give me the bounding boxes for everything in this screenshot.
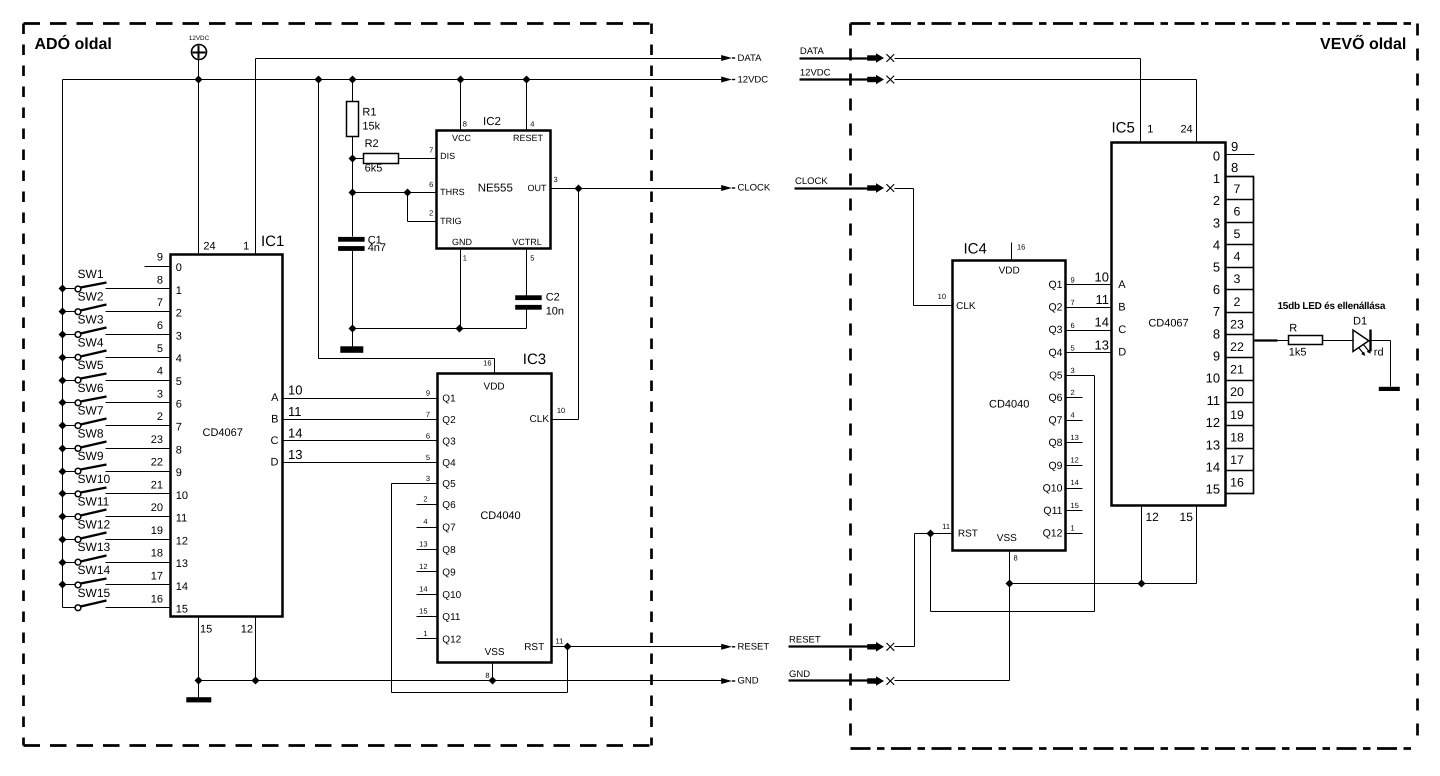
wire DATA to IC5 pin 1	[895, 59, 1141, 143]
RESET output arrow	[721, 642, 769, 653]
wire IC4 Q1 (pin 9) to IC5 A (pin 10)	[1048, 270, 1111, 292]
IC1 channel 14 wire (pin 17)	[106, 570, 189, 592]
svg-text:12: 12	[1146, 510, 1160, 524]
wire THRS node to IC2 THRS (pin 6)	[353, 192, 437, 194]
resistor R1 15k	[347, 102, 381, 137]
IC3 Q10 stub (pin 14)	[417, 584, 462, 601]
switch SW15	[63, 586, 111, 611]
svg-text:7: 7	[1071, 298, 1075, 307]
svg-text:4: 4	[1213, 238, 1220, 253]
svg-text:SW4: SW4	[78, 335, 104, 349]
svg-text:D: D	[271, 456, 279, 468]
svg-text:IC1: IC1	[261, 233, 284, 250]
junction IC5 pin12/VSS bus	[1138, 580, 1146, 588]
svg-text:8: 8	[485, 671, 489, 680]
svg-text:1: 1	[1071, 523, 1075, 532]
svg-text:SW10: SW10	[78, 472, 111, 486]
junction IC2 GND/ground bus	[456, 325, 464, 333]
ground symbol (IC1)	[186, 681, 211, 703]
junction CLOCK/IC3 CLK	[575, 185, 583, 193]
svg-text:VCTRL: VCTRL	[512, 237, 542, 247]
svg-text:13: 13	[288, 447, 302, 462]
svg-text:C: C	[1118, 324, 1126, 336]
IC3 RST (pin 11) stub	[552, 646, 568, 648]
IC1 channel 11 wire (pin 20)	[106, 502, 188, 524]
svg-text:THRS: THRS	[440, 187, 465, 197]
svg-text:SW15: SW15	[78, 586, 111, 600]
svg-text:Q8: Q8	[442, 545, 456, 556]
wire DATA line (IC1 pin1 to output)	[256, 58, 722, 60]
svg-text:RESET: RESET	[738, 642, 770, 653]
svg-text:16: 16	[483, 359, 491, 368]
wire THRS node to C1	[352, 193, 354, 237]
switch SW12	[59, 517, 111, 543]
svg-text:3: 3	[554, 175, 558, 184]
receiver DATA input port	[800, 46, 895, 63]
svg-text:R1: R1	[362, 107, 376, 119]
IC4 RST stub wire	[931, 533, 953, 535]
svg-text:14: 14	[419, 584, 427, 593]
junction IC3 VSS/GND line	[489, 677, 497, 685]
svg-text:1: 1	[243, 241, 249, 253]
svg-text:7: 7	[429, 145, 433, 154]
wire TRIG branch to IC2 TRIG (pin 2)	[408, 193, 437, 222]
receiver GND input port	[789, 669, 895, 686]
wire IC1 D (pin 13) to IC3 Q4 (pin 5)	[271, 447, 457, 469]
svg-text:22: 22	[1230, 340, 1244, 354]
wire GND line	[199, 680, 722, 682]
svg-text:GND: GND	[452, 237, 473, 247]
resistor R 1k5	[1289, 322, 1323, 358]
svg-text:Q1: Q1	[1048, 279, 1062, 291]
wire strip pin 22 to resistor R	[1255, 339, 1289, 341]
svg-text:Q8: Q8	[1048, 437, 1062, 449]
IC4 VSS (pin 8) wire down	[1010, 551, 1018, 681]
12VDC supply symbol	[189, 35, 210, 60]
wire RESET to IC4 RST (pin 11)	[895, 534, 931, 647]
svg-text:Q12: Q12	[442, 635, 461, 646]
svg-text:Q5: Q5	[1049, 370, 1063, 381]
IC1 channel 2 wire (pin 7)	[106, 297, 182, 319]
svg-text:10: 10	[557, 406, 565, 415]
wire switch common rail	[62, 80, 64, 608]
svg-text:11: 11	[288, 404, 302, 419]
svg-text:2: 2	[157, 411, 163, 423]
wire supply to 12VDC rail	[198, 60, 200, 80]
IC4 Q11 stub (pin 15)	[1043, 501, 1082, 517]
switch SW13	[59, 540, 111, 566]
svg-text:18: 18	[151, 548, 163, 560]
svg-text:13: 13	[1071, 433, 1079, 442]
svg-text:Q10: Q10	[1043, 482, 1063, 494]
IC4 Q9 stub (pin 12)	[1048, 456, 1082, 472]
svg-text:7: 7	[1213, 304, 1220, 319]
IC4 CD4040 counter body	[938, 241, 1066, 551]
IC4 Q12 stub (pin 1)	[1043, 523, 1083, 539]
svg-text:5: 5	[426, 453, 430, 462]
IC4 Q8 stub (pin 13)	[1048, 433, 1082, 449]
svg-text:6: 6	[1213, 282, 1220, 297]
svg-text:3: 3	[157, 388, 163, 400]
svg-text:3: 3	[176, 330, 182, 342]
svg-text:14: 14	[1095, 315, 1109, 330]
svg-text:12: 12	[241, 624, 253, 636]
junction THRS node	[349, 189, 357, 197]
svg-text:16: 16	[1230, 476, 1244, 490]
wire R1 to R2/THRS node	[352, 137, 354, 193]
svg-text:17: 17	[151, 570, 163, 582]
svg-text:B: B	[271, 414, 278, 426]
IC4 VDD (pin 16) stub	[1012, 243, 1026, 261]
IC1 pin 12 stub	[241, 617, 256, 681]
svg-text:Q5: Q5	[442, 479, 456, 490]
svg-text:3: 3	[1071, 366, 1075, 375]
svg-text:7: 7	[176, 421, 182, 433]
svg-text:NE555: NE555	[478, 183, 513, 195]
svg-text:8: 8	[463, 120, 467, 129]
IC1 channel 8 wire (pin 23)	[106, 434, 182, 456]
svg-text:SW14: SW14	[78, 563, 111, 577]
svg-text:Q7: Q7	[442, 523, 456, 534]
svg-text:1: 1	[463, 253, 467, 262]
svg-text:6: 6	[426, 432, 430, 441]
IC1 channel 15 wire (pin 16)	[106, 593, 189, 615]
svg-text:5: 5	[530, 253, 534, 262]
svg-text:Q2: Q2	[442, 415, 456, 426]
IC5 channel 0 stub (pin 9)	[1226, 139, 1255, 175]
svg-text:4n7: 4n7	[368, 242, 386, 254]
svg-text:R2: R2	[365, 138, 379, 150]
svg-text:4: 4	[1071, 410, 1075, 419]
svg-text:10: 10	[1095, 270, 1109, 285]
IC3 Q6 stub (pin 2)	[417, 494, 457, 511]
svg-text:4: 4	[1234, 250, 1241, 264]
12VDC output arrow	[721, 74, 768, 85]
IC3 Q12 stub (pin 1)	[417, 629, 462, 646]
svg-text:8: 8	[176, 444, 182, 456]
svg-text:21: 21	[1230, 363, 1244, 377]
svg-text:VCC: VCC	[452, 133, 472, 143]
svg-text:SW11: SW11	[78, 495, 110, 509]
IC3 Q5 (pin 3) wire to RST loop	[392, 474, 568, 693]
svg-text:12VDC: 12VDC	[800, 67, 831, 78]
IC1 CD4067 multiplexer body	[171, 233, 285, 617]
wire 12VDC rail to R1	[352, 80, 354, 102]
junction 12VDC/supply	[195, 76, 203, 84]
svg-text:A: A	[1118, 279, 1126, 291]
svg-text:IC2: IC2	[483, 116, 501, 128]
svg-text:9: 9	[426, 389, 430, 398]
junction IC3 RST/RESET line	[564, 643, 572, 651]
svg-text:2: 2	[1071, 388, 1075, 397]
svg-text:4: 4	[530, 120, 534, 129]
switch SW7	[59, 404, 107, 430]
svg-text:2: 2	[176, 308, 182, 320]
svg-text:OUT: OUT	[528, 183, 548, 193]
IC1 channel 6 wire (pin 3)	[106, 388, 182, 410]
svg-text:22: 22	[151, 457, 163, 469]
svg-text:Q6: Q6	[442, 500, 456, 511]
receiver RESET input port	[789, 635, 895, 652]
svg-text:SW3: SW3	[78, 313, 104, 327]
svg-text:13: 13	[1095, 337, 1109, 352]
svg-text:3: 3	[426, 474, 430, 483]
IC3 CD4040 counter body	[438, 351, 566, 663]
ground symbol (LED)	[1379, 387, 1400, 391]
junction R1/R2	[349, 155, 357, 163]
svg-text:8: 8	[1213, 326, 1220, 341]
svg-text:11: 11	[942, 522, 950, 531]
IC1 channel 4 wire (pin 5)	[106, 343, 182, 365]
svg-text:10: 10	[1206, 371, 1220, 386]
ground symbol (oscillator)	[340, 329, 363, 353]
IC2 NE555 timer	[429, 116, 558, 262]
svg-text:15: 15	[200, 624, 212, 636]
svg-text:Q2: Q2	[1048, 302, 1062, 314]
svg-text:20: 20	[1230, 385, 1244, 399]
svg-text:Q6: Q6	[1048, 392, 1062, 404]
wire CLOCK to IC3 CLK (pin 10)	[552, 189, 579, 420]
svg-text:CLOCK: CLOCK	[738, 183, 771, 194]
svg-text:DATA: DATA	[800, 46, 825, 57]
wire IC1 pin24 to 12VDC rail	[198, 80, 200, 255]
svg-text:20: 20	[151, 502, 163, 514]
svg-text:VEVŐ oldal: VEVŐ oldal	[1320, 34, 1406, 53]
svg-text:17: 17	[1230, 453, 1244, 467]
junction IC1 pin15 / ground	[195, 677, 203, 685]
LED D1	[1353, 316, 1384, 359]
wire IC4 Q4 (pin 5) to IC5 D (pin 13)	[1048, 337, 1111, 359]
svg-text:9: 9	[1231, 139, 1238, 154]
svg-text:11: 11	[556, 637, 564, 646]
junction 12VDC/IC2 VCC	[457, 76, 465, 84]
switch SW5	[59, 358, 107, 384]
capacitor C2 10n	[515, 292, 564, 318]
svg-text:8: 8	[1231, 160, 1238, 175]
svg-text:5: 5	[1213, 260, 1220, 275]
IC4 Q5 (pin 3) wire to RST loop	[931, 366, 1095, 612]
IC1 channel 10 wire (pin 21)	[106, 479, 189, 501]
svg-text:15: 15	[1071, 501, 1079, 510]
wire CLOCK line (555 OUT to output)	[551, 188, 722, 190]
svg-text:D1: D1	[1353, 316, 1367, 328]
capacitor C1 4n7	[338, 235, 386, 255]
IC1 channel 5 wire (pin 4)	[106, 366, 182, 388]
svg-text:3: 3	[1213, 215, 1220, 230]
svg-text:24: 24	[1180, 124, 1192, 136]
receiver 12VDC input port	[800, 67, 895, 84]
resistor R2 6k5	[353, 138, 399, 175]
svg-text:VSS: VSS	[997, 533, 1017, 544]
junction THRS/TRIG branch	[404, 189, 412, 197]
svg-text:11: 11	[1207, 393, 1221, 408]
receiver CLOCK input port	[795, 176, 895, 193]
wire C2 to ground bus	[526, 310, 528, 329]
wire IC2 RESET (pin 4) to 12VDC	[526, 80, 528, 131]
svg-text:Q4: Q4	[442, 458, 456, 469]
svg-text:4: 4	[157, 366, 163, 378]
wire IC2 VCTRL (pin 5) to C2	[526, 249, 528, 296]
IC3 VSS (pin 8) stub	[485, 663, 492, 681]
svg-text:11: 11	[176, 513, 187, 525]
svg-text:RST: RST	[524, 642, 544, 653]
svg-text:Q4: Q4	[1048, 347, 1062, 359]
svg-text:SW5: SW5	[78, 358, 104, 372]
svg-text:12VDC: 12VDC	[189, 35, 210, 42]
svg-text:CD4067: CD4067	[203, 427, 243, 439]
switch SW14	[59, 563, 111, 589]
svg-text:6: 6	[1234, 204, 1241, 218]
svg-text:23: 23	[1230, 317, 1244, 331]
switch SW3	[59, 313, 107, 339]
IC5 pin 15 stub	[1180, 506, 1197, 584]
svg-text:13: 13	[1206, 437, 1220, 452]
svg-text:15: 15	[1206, 482, 1220, 497]
svg-text:1: 1	[1213, 171, 1220, 186]
svg-text:7: 7	[157, 297, 163, 309]
svg-text:4: 4	[176, 353, 182, 365]
svg-text:ADÓ oldal: ADÓ oldal	[35, 34, 112, 53]
IC1 channel 13 wire (pin 18)	[106, 548, 189, 570]
svg-text:GND: GND	[738, 676, 759, 687]
svg-text:1k5: 1k5	[1289, 347, 1307, 359]
svg-text:4: 4	[423, 517, 427, 526]
svg-text:15: 15	[1180, 510, 1194, 524]
wire IC1 A (pin 10) to IC3 Q1 (pin 9)	[271, 383, 456, 405]
svg-text:RESET: RESET	[513, 133, 544, 143]
IC4 Q10 stub (pin 14)	[1043, 478, 1083, 494]
svg-text:Q10: Q10	[442, 590, 461, 601]
LED pin strip (pins 7..16)	[1226, 177, 1254, 494]
svg-text:0: 0	[176, 262, 182, 274]
svg-text:B: B	[1118, 301, 1125, 313]
IC3 Q9 stub (pin 12)	[417, 562, 457, 579]
svg-text:CD4067: CD4067	[1148, 318, 1188, 330]
IC3 Q8 stub (pin 13)	[417, 540, 457, 557]
svg-text:2: 2	[429, 208, 433, 217]
wire 12VDC rail	[63, 79, 722, 81]
switch SW4	[59, 335, 107, 361]
svg-text:21: 21	[151, 479, 163, 491]
svg-text:IC3: IC3	[523, 351, 546, 368]
svg-text:VSS: VSS	[485, 647, 505, 658]
svg-text:16: 16	[151, 593, 163, 605]
svg-text:VDD: VDD	[484, 382, 505, 393]
svg-text:Q11: Q11	[1043, 505, 1062, 517]
wire VSS bus to IC5 pins 12,15	[1010, 583, 1197, 585]
IC3 Q7 stub (pin 4)	[417, 517, 457, 534]
svg-text:12: 12	[419, 562, 427, 571]
junction C1/ground bus	[349, 325, 357, 333]
svg-text:R: R	[1289, 322, 1297, 334]
junction 12VDC/IC2 RESET	[523, 76, 531, 84]
svg-text:5: 5	[157, 343, 163, 355]
IC5 pin 12 stub	[1142, 506, 1160, 584]
wire IC1 C (pin 14) to IC3 Q3 (pin 6)	[271, 426, 457, 448]
svg-text:CD4040: CD4040	[989, 399, 1029, 411]
svg-text:IC5: IC5	[1112, 120, 1135, 137]
svg-text:13: 13	[176, 558, 188, 570]
svg-text:Q12: Q12	[1043, 528, 1063, 540]
svg-text:SW1: SW1	[78, 267, 104, 281]
wire IC2 GND (pin 1) to ground bus	[460, 249, 462, 329]
svg-text:19: 19	[1230, 408, 1244, 422]
svg-text:Q9: Q9	[442, 567, 456, 578]
svg-text:14: 14	[1206, 460, 1220, 475]
svg-text:SW13: SW13	[78, 540, 111, 554]
svg-text:SW7: SW7	[78, 404, 104, 418]
svg-text:1: 1	[1147, 124, 1153, 136]
switch SW2	[59, 290, 107, 316]
svg-text:10n: 10n	[546, 305, 564, 317]
svg-text:VDD: VDD	[999, 266, 1020, 277]
junction IC1 pin12 / GND line	[252, 677, 260, 685]
wire C1 to ground node	[352, 251, 354, 329]
svg-text:5: 5	[1234, 227, 1241, 241]
svg-text:Q9: Q9	[1048, 460, 1062, 472]
svg-text:D: D	[1118, 347, 1126, 359]
svg-text:15: 15	[419, 607, 427, 616]
switch SW10	[59, 472, 111, 498]
switch SW6	[59, 381, 107, 407]
svg-text:14: 14	[1071, 478, 1079, 487]
IC5 CD4067 multiplexer body	[1112, 120, 1226, 506]
IC1 channel 12 wire (pin 19)	[106, 525, 189, 547]
wire RESET line	[568, 646, 722, 648]
svg-text:12: 12	[176, 535, 188, 547]
svg-text:SW8: SW8	[78, 426, 104, 440]
IC1 channel 3 wire (pin 6)	[106, 320, 182, 342]
svg-text:Q7: Q7	[1048, 415, 1062, 427]
receiver frame (VEVŐ oldal dash-dot border)	[851, 24, 1418, 749]
svg-text:GND: GND	[789, 669, 810, 680]
IC1 pin 15 stub	[199, 617, 213, 681]
switch SW1	[59, 267, 107, 293]
IC1 channel 7 wire (pin 2)	[106, 411, 182, 433]
svg-text:2: 2	[1213, 193, 1220, 208]
svg-text:16: 16	[1017, 243, 1025, 252]
svg-text:TRIG: TRIG	[440, 216, 462, 226]
GND output arrow	[721, 676, 759, 687]
svg-text:Q11: Q11	[442, 612, 461, 623]
svg-text:10: 10	[288, 383, 302, 398]
svg-text:IC4: IC4	[964, 241, 987, 258]
svg-text:9: 9	[1213, 349, 1220, 364]
IC4 Q6 stub (pin 2)	[1048, 388, 1082, 404]
svg-text:2: 2	[1234, 295, 1241, 309]
svg-text:9: 9	[157, 252, 163, 264]
svg-text:18: 18	[1230, 430, 1244, 444]
svg-text:14: 14	[176, 581, 188, 593]
svg-text:CD4040: CD4040	[480, 510, 520, 522]
wire IC2 VCC (pin 8) to 12VDC	[460, 80, 462, 131]
svg-text:RST: RST	[958, 529, 978, 540]
IC4 Q7 stub (pin 4)	[1048, 410, 1082, 426]
svg-text:8: 8	[1014, 554, 1018, 563]
wire CLOCK to IC4 CLK (pin 10)	[895, 189, 953, 306]
svg-text:6k5: 6k5	[365, 163, 383, 175]
svg-text:rd: rd	[1374, 347, 1384, 359]
svg-text:13: 13	[419, 540, 427, 549]
junction 12VDC/R1	[349, 76, 357, 84]
junction 12VDC/IC3 VDD branch	[315, 76, 323, 84]
svg-text:SW6: SW6	[78, 381, 104, 395]
svg-text:14: 14	[288, 426, 302, 441]
svg-text:15db LED és ellenállása: 15db LED és ellenállása	[1278, 301, 1386, 312]
IC3 Q11 stub (pin 15)	[417, 607, 461, 624]
switch SW11	[59, 495, 110, 521]
svg-text:1: 1	[176, 285, 182, 297]
